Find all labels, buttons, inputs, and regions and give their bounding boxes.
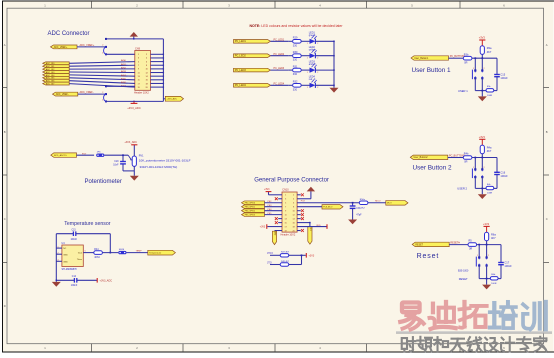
svg-text:100R: 100R (487, 95, 493, 97)
svg-text:SB16: SB16 (119, 249, 125, 251)
svg-text:C14: C14 (72, 276, 77, 278)
svg-text:AIN4: AIN4 (121, 74, 127, 77)
svg-text:STLM20W87F: STLM20W87F (62, 268, 78, 271)
svg-text:+3V3: +3V3 (260, 226, 266, 228)
svg-text:Temperature: Temperature (149, 252, 162, 255)
svg-text:RESET: RESET (415, 244, 423, 246)
svg-text:5: 5 (285, 203, 286, 205)
svg-text:R31: R31 (293, 66, 298, 69)
svg-text:18: 18 (293, 226, 295, 228)
svg-text:Reset: Reset (417, 253, 440, 260)
svg-text:PE5_GPIO3: PE5_GPIO3 (245, 215, 255, 217)
svg-text:+3V3_ADC: +3V3_ADC (100, 280, 113, 283)
svg-text:C: C (546, 217, 548, 221)
svg-text:13: 13 (285, 218, 287, 220)
svg-text:R50a: R50a (360, 199, 366, 201)
svg-text:C15: C15 (72, 229, 77, 231)
svg-text:2: 2 (293, 195, 294, 197)
svg-text:R30: R30 (293, 51, 298, 54)
svg-text:A: A (546, 43, 548, 47)
svg-text:3: 3 (285, 199, 286, 201)
svg-text:C20: C20 (114, 161, 119, 163)
svg-text:Potentiometer: Potentiometer (85, 179, 122, 185)
svg-text:+3V3: +3V3 (264, 189, 270, 191)
svg-text:amber: amber (309, 63, 316, 66)
svg-text:RESET#: RESET# (450, 242, 460, 245)
svg-text:1: 1 (58, 247, 59, 249)
svg-text:C16: C16 (500, 170, 505, 174)
svg-text:ADC_VREF-: ADC_VREF- (80, 91, 94, 94)
svg-text:1: 1 (285, 195, 286, 197)
svg-text:2: 2 (317, 43, 318, 45)
svg-text:2: 2 (317, 72, 318, 74)
svg-text:330: 330 (293, 59, 298, 62)
svg-text:2: 2 (317, 58, 318, 60)
svg-text:R4a: R4a (487, 146, 492, 150)
svg-text:NOTE: LED colours and resistor: NOTE: LED colours and resistor values wi… (250, 24, 344, 28)
svg-text:4: 4 (293, 199, 294, 201)
svg-text:47pF: 47pF (356, 215, 362, 217)
svg-text:Temperature sensor: Temperature sensor (64, 221, 110, 227)
svg-text:10K_potentiometer 3310Y-001-10: 10K_potentiometer 3310Y-001-103LF (139, 158, 191, 162)
svg-text:POT: POT (82, 153, 87, 155)
svg-text:+3V3: +3V3 (479, 36, 486, 40)
svg-text:1: 1 (307, 58, 308, 60)
svg-text:330: 330 (293, 88, 298, 91)
svg-text:R3a: R3a (487, 46, 492, 50)
svg-text:16: 16 (293, 222, 295, 224)
svg-text:PC_LED3: PC_LED3 (274, 67, 285, 70)
svg-text:MCO: MCO (387, 203, 392, 205)
svg-text:100R: 100R (491, 283, 497, 285)
svg-text:10: 10 (293, 210, 295, 212)
svg-text:2: 2 (102, 45, 103, 47)
svg-text:CN9: CN9 (135, 47, 141, 50)
svg-text:User_Button1: User_Button1 (414, 57, 429, 60)
svg-text:2: 2 (488, 255, 489, 257)
svg-text:PC_LED3: PC_LED3 (235, 69, 247, 72)
svg-text:General Purpose Connector: General Purpose Connector (254, 177, 329, 183)
svg-text:8: 8 (293, 207, 294, 209)
svg-text:RV1: RV1 (139, 155, 144, 158)
svg-text:R47 4K7: R47 4K7 (281, 252, 290, 254)
svg-text:1: 1 (307, 43, 308, 45)
svg-text:17: 17 (285, 226, 287, 228)
svg-text:100nF: 100nF (500, 76, 508, 80)
svg-text:+3V3: +3V3 (309, 254, 315, 257)
svg-text:+3V3_ADC: +3V3_ADC (167, 98, 178, 101)
svg-text:100nF: 100nF (71, 239, 78, 241)
svg-text:R4b: R4b (464, 153, 469, 156)
svg-text:19: 19 (285, 230, 287, 232)
svg-text:R6a: R6a (491, 233, 496, 237)
svg-text:A: A (4, 43, 6, 47)
svg-text:PC_LED4: PC_LED4 (235, 84, 247, 87)
svg-text:PC_LED4: PC_LED4 (274, 82, 285, 85)
svg-text:3310Y-001-103LF MOD(TH): 3310Y-001-103LF MOD(TH) (140, 165, 178, 169)
svg-text:14: 14 (293, 218, 295, 220)
svg-text:10nF: 10nF (113, 165, 119, 167)
svg-text:R32: R32 (293, 81, 298, 84)
svg-text:0R: 0R (469, 248, 472, 251)
svg-text:ADC_IN7: ADC_IN7 (46, 83, 55, 86)
svg-text:AIN5: AIN5 (121, 77, 127, 80)
svg-text:green: green (309, 34, 316, 37)
svg-text:1: 1 (307, 87, 308, 89)
svg-text:RC5_ADC15: RC5_ADC15 (54, 154, 67, 157)
svg-text:B3S-1000: B3S-1000 (458, 271, 469, 273)
svg-text:NC: NC (63, 248, 67, 250)
svg-text:4K64: 4K64 (94, 257, 100, 259)
svg-text:100nF: 100nF (71, 285, 78, 287)
svg-text:PC_LED2: PC_LED2 (235, 55, 247, 58)
svg-text:MCO: MCO (375, 201, 380, 203)
svg-text:ADC_VREF-: ADC_VREF- (56, 93, 69, 96)
svg-text:GND: GND (274, 231, 276, 236)
svg-text:15: 15 (285, 222, 287, 224)
svg-text:AIN6: AIN6 (121, 81, 127, 84)
svg-text:ADC_VREF+: ADC_VREF+ (80, 44, 95, 47)
svg-text:2: 2 (484, 68, 485, 70)
svg-text:ADC Connector: ADC Connector (48, 31, 90, 37)
svg-text:yellow: yellow (309, 49, 316, 52)
svg-text:R48 4K7: R48 4K7 (281, 261, 290, 263)
svg-text:JTDO: JTDO (267, 253, 273, 255)
svg-text:+3V3_ADC: +3V3_ADC (127, 106, 141, 110)
svg-text:100nF: 100nF (500, 174, 508, 178)
svg-text:Header 10X2: Header 10X2 (134, 91, 149, 94)
svg-text:+3V3: +3V3 (483, 222, 490, 226)
svg-text:4K7: 4K7 (487, 149, 492, 153)
svg-text:PC_LED2: PC_LED2 (274, 53, 285, 56)
svg-text:100R: 100R (487, 193, 493, 195)
svg-text:20: 20 (293, 230, 295, 232)
svg-text:7: 7 (285, 207, 286, 209)
svg-text:B: B (4, 130, 6, 134)
svg-text:C17: C17 (504, 261, 509, 265)
svg-text:+3V3: +3V3 (479, 135, 486, 139)
svg-text:0R: 0R (464, 161, 467, 164)
svg-text:User_Button2: User_Button2 (414, 156, 429, 159)
svg-text:PE4_GPIO2: PE4_GPIO2 (245, 211, 255, 213)
svg-text:AIN3: AIN3 (121, 70, 127, 73)
svg-text:2: 2 (484, 167, 485, 169)
svg-text:AIN1: AIN1 (121, 63, 127, 66)
svg-text:3: 3 (58, 260, 59, 262)
svg-text:VDD: VDD (316, 225, 321, 227)
svg-text:2: 2 (58, 253, 59, 255)
svg-text:C15: C15 (500, 73, 505, 77)
svg-text:1: 1 (473, 167, 474, 169)
svg-text:6: 6 (293, 203, 294, 205)
svg-text:Tbias: Tbias (77, 259, 82, 261)
svg-text:1: 1 (102, 52, 103, 54)
svg-text:AIN0: AIN0 (121, 59, 127, 62)
svg-text:User Button 2: User Button 2 (413, 165, 453, 172)
svg-text:TEMP: TEMP (136, 251, 143, 253)
svg-text:R3b: R3b (464, 53, 469, 56)
svg-text:USER 1: USER 1 (458, 89, 468, 93)
svg-text:PE2_GPIO0: PE2_GPIO0 (245, 203, 255, 205)
svg-text:User Button 1: User Button 1 (412, 67, 452, 74)
svg-text:12: 12 (293, 214, 295, 216)
svg-text:GND: GND (63, 254, 68, 256)
svg-text:4K7: 4K7 (491, 236, 496, 240)
svg-text:100nF: 100nF (504, 264, 512, 268)
svg-text:2: 2 (102, 92, 103, 94)
svg-text:PC8_MCO: PC8_MCO (323, 207, 333, 209)
svg-text:RESET: RESET (459, 277, 468, 281)
svg-text:AIN2: AIN2 (121, 66, 127, 69)
svg-text:R44: R44 (94, 249, 99, 251)
svg-text:CN10: CN10 (282, 189, 289, 192)
svg-text:B: B (546, 130, 548, 134)
svg-text:Vout: Vout (78, 252, 83, 255)
svg-text:1: 1 (473, 68, 474, 70)
svg-text:9: 9 (285, 210, 286, 212)
svg-text:330: 330 (293, 44, 298, 47)
svg-text:1: 1 (307, 72, 308, 74)
svg-text:GND: GND (63, 261, 68, 263)
svg-text:+3V3_ADC: +3V3_ADC (124, 141, 137, 144)
svg-text:PC_LED1: PC_LED1 (274, 38, 285, 41)
svg-text:PE3_GPIO1: PE3_GPIO1 (245, 207, 255, 209)
svg-text:D: D (4, 304, 6, 308)
svg-text:4K7: 4K7 (487, 50, 492, 54)
svg-text:Header 10X2: Header 10X2 (281, 234, 296, 237)
svg-text:PC_LED1: PC_LED1 (235, 40, 247, 43)
svg-text:0R: 0R (464, 61, 467, 64)
svg-text:2: 2 (317, 87, 318, 89)
svg-text:C: C (4, 217, 6, 221)
svg-text:JTDI: JTDI (267, 262, 272, 264)
svg-text:USER 2: USER 2 (457, 187, 467, 191)
svg-text:11: 11 (285, 214, 287, 216)
svg-text:R29: R29 (293, 37, 298, 40)
svg-text:330: 330 (293, 73, 298, 76)
svg-text:ADC_VREF+: ADC_VREF+ (54, 46, 68, 49)
svg-text:1: 1 (102, 100, 103, 102)
svg-text:1: 1 (477, 255, 478, 257)
